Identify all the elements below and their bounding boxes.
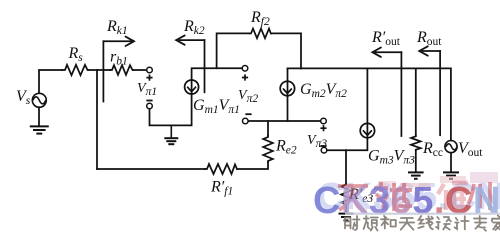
wire bottom right <box>237 162 268 169</box>
wire Rf2 left riser <box>217 33 250 68</box>
ground stage1 <box>164 125 178 144</box>
plus mark Vpi1 <box>146 75 152 81</box>
wire to Vpi1+ <box>133 69 147 71</box>
wire Rcc bottom <box>415 150 417 171</box>
Rk1 arrow <box>103 40 131 42</box>
wire Vs top <box>39 70 62 93</box>
wire Re3 bottom <box>345 206 347 213</box>
Rout arrow <box>422 50 440 52</box>
ground Re3 <box>339 214 354 221</box>
wire Re3 top <box>345 150 347 183</box>
wire Vpi2 minus to Vpi3 plus <box>248 120 321 122</box>
Rk2 arrow <box>180 39 205 41</box>
arrowhead Rk2 <box>176 35 185 44</box>
Rpout arrow <box>376 51 402 53</box>
resistor Re3 <box>341 184 351 207</box>
resistor rb1 <box>110 65 133 75</box>
minus mark Vpi3 <box>320 145 326 147</box>
arrow inside Gm2 <box>283 89 291 94</box>
resistor Rf1p <box>205 164 237 174</box>
arrow inside Gm1 <box>188 87 196 92</box>
wire Vpi1 minus down <box>150 94 192 125</box>
wire bottom left <box>97 168 205 170</box>
current source Gm3 <box>360 123 374 137</box>
Rpout stem <box>400 52 402 136</box>
arrowhead Rpout <box>372 48 381 57</box>
current source Gm2 <box>280 81 294 95</box>
wire Rf2 right <box>271 33 301 68</box>
wire Gm1 top <box>192 68 243 94</box>
minus mark Vpi1 <box>146 100 152 102</box>
resistor Rcc <box>411 136 421 150</box>
wire node A <box>88 69 110 71</box>
source Vout <box>445 141 457 153</box>
source Vs <box>32 93 46 107</box>
terminal Vpi3 minus <box>321 147 327 153</box>
resistor Rs <box>62 65 88 75</box>
terminal Vpi2 plus <box>242 66 248 72</box>
plus mark Vpi3 <box>320 125 326 131</box>
current source Gm1 <box>185 80 199 94</box>
wire Vs bottom <box>38 107 40 125</box>
watermark slogan bar <box>345 213 500 215</box>
terminal Vpi1 plus <box>147 67 153 73</box>
terminal Vpi2 minus <box>243 118 249 124</box>
wire Rcc top <box>415 68 417 135</box>
arrowhead Rout <box>419 46 428 55</box>
watermark red glyphs <box>338 182 490 212</box>
minus mark Vpi2 <box>245 113 251 115</box>
ground under Vs <box>30 126 49 133</box>
wire output bus <box>288 68 451 140</box>
arrowhead Rk1 <box>126 37 135 46</box>
arrow inside Gm3 <box>363 131 371 136</box>
Rout stem <box>439 51 441 135</box>
wire feedback left drop <box>96 70 98 169</box>
terminal Vpi1 minus <box>147 103 153 109</box>
resistor Re2 <box>263 136 273 163</box>
ground Rcc <box>408 172 424 178</box>
wire Vout bottom <box>450 153 452 171</box>
terminal Vpi3 plus <box>321 118 327 124</box>
watermark light blocks <box>378 172 498 187</box>
wire Gm3 through <box>327 68 368 150</box>
plus mark Vpi2 <box>242 74 248 80</box>
Rk2 stem <box>204 40 206 92</box>
wire Re2 top <box>267 121 269 136</box>
Rk1 stem <box>102 41 104 101</box>
wire Gm2 through <box>287 68 289 121</box>
ground Vout <box>443 172 459 178</box>
resistor Rf2 <box>250 29 271 39</box>
